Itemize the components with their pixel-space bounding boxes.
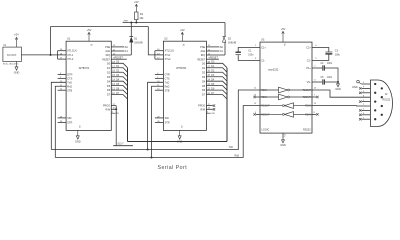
pin U3 T2OUT stub [312, 96, 316, 98]
junction U2 RxD on line [151, 157, 153, 159]
svg-text:TxD: TxD [229, 146, 234, 149]
ground at U1 [75, 130, 81, 143]
pin U3 GND bottom [282, 133, 284, 138]
svg-text:+RESET: +RESET [113, 56, 123, 59]
svg-text:20: 20 [78, 125, 80, 128]
svg-text:8: 8 [314, 112, 316, 114]
svg-text:SID: SID [67, 117, 71, 120]
wire U1 RW pin [111, 108, 116, 110]
pin labels U2 left group [157, 73, 170, 92]
pin labels U3 T2IN T2OUT [254, 95, 316, 100]
pin labels U2 XTAL group [157, 49, 174, 61]
svg-text:IRQ: IRQ [201, 54, 206, 57]
wire U2 XTAL pin tie [154, 51, 156, 59]
capacitor C2 [321, 63, 333, 71]
pin labels U3 R1OUT R1IN [254, 103, 317, 108]
pin U2 XTL1 [155, 54, 164, 56]
svg-text:Serial Port: Serial Port [158, 165, 188, 171]
capacitor C1 [236, 50, 255, 57]
svg-text:RxD: RxD [67, 85, 72, 88]
svg-text:4: 4 [315, 45, 317, 47]
pin U2 STB stub [155, 89, 164, 91]
pin U2 D7 wire and bus ripper [206, 95, 227, 99]
svg-text:U2: U2 [164, 37, 168, 41]
op-amp style buffer receiver R2OUT inside U3 [260, 112, 312, 118]
svg-text:SJ2-7: SJ2-7 [118, 143, 125, 145]
svg-text:J2: J2 [385, 93, 388, 96]
svg-text:P5: P5 [116, 113, 119, 115]
svg-text:D1: D1 [134, 38, 138, 41]
power +5V at oscillator X1 [14, 33, 19, 48]
pin U1 D4 wire and bus ripper [111, 81, 127, 85]
junction R1 reset rail [135, 22, 137, 24]
svg-text:D5: D5 [202, 85, 206, 88]
pin labels U3 C2+ C2- [306, 45, 317, 63]
bus horizontal data bus [128, 141, 228, 143]
svg-text:D7: D7 [202, 94, 206, 97]
svg-text:D4: D4 [202, 80, 206, 83]
wire U1 XTAL pin tie [57, 51, 59, 59]
svg-text:T2OUT: T2OUT [303, 96, 312, 99]
svg-text:20: 20 [180, 125, 182, 128]
svg-text:+5V: +5V [87, 28, 92, 32]
svg-text:D6: D6 [107, 89, 111, 92]
pin labels U1 SID STR [60, 116, 73, 124]
ground at oscillator X1 [14, 61, 20, 74]
no-connect J2 pin 3 [359, 100, 361, 102]
svg-text:R1IN: R1IN [305, 105, 311, 108]
IC U2 W78C51 body [163, 37, 206, 131]
svg-text:1: 1 [255, 45, 257, 47]
svg-text:15: 15 [283, 134, 285, 137]
pin labels U1 XTAL group [60, 49, 77, 61]
pin U2 D2 wire and bus ripper [206, 72, 227, 76]
svg-text:U1: U1 [67, 37, 71, 41]
ground at U2 [177, 130, 183, 143]
svg-text:C1+: C1+ [261, 47, 266, 50]
capacitor C3 [325, 50, 340, 57]
pin U2 DTR stub [155, 73, 164, 75]
pin U2 D3 wire and bus ripper [206, 77, 227, 81]
svg-text:D0: D0 [107, 62, 111, 65]
svg-text:+RST: +RST [123, 20, 129, 22]
svg-text:VS-: VS- [307, 81, 311, 84]
svg-text:5: 5 [315, 58, 317, 60]
svg-text:8.0 OUT: 8.0 OUT [7, 54, 17, 57]
IC U1 W78C51 body [66, 37, 111, 131]
svg-text:A0: A0 [220, 46, 224, 49]
svg-text:TxD: TxD [165, 81, 170, 84]
pin labels U1 PSE ALE IRQ RESET [102, 46, 110, 61]
svg-text:SID: SID [165, 117, 169, 120]
svg-text:PSE: PSE [200, 46, 205, 49]
svg-text:D6: D6 [202, 89, 206, 92]
svg-text:D0: D0 [202, 62, 206, 65]
svg-text:C3: C3 [335, 50, 339, 53]
svg-text:CTS: CTS [67, 77, 72, 80]
ground at J2 pin 5 [352, 80, 362, 89]
svg-text:RESET: RESET [198, 59, 206, 61]
pin U3 VS+ wire [312, 67, 322, 69]
svg-text:DTR: DTR [165, 74, 170, 77]
svg-text:12: 12 [254, 103, 257, 105]
pin U3 C1- wire to C1 [238, 55, 260, 60]
svg-text:RxD: RxD [235, 154, 240, 157]
svg-text:D2: D2 [107, 71, 111, 74]
svg-text:7: 7 [314, 95, 316, 97]
pin labels U3 C1+ C1- [255, 45, 266, 63]
op-amp style buffer driver T2IN inside U3 [260, 94, 312, 100]
svg-text:A0: A0 [125, 46, 129, 49]
wire U2 IRQ pin to diode node [206, 54, 225, 56]
wire D2 bottom to U2 IRQ wire [224, 42, 226, 55]
pin U1 STR stub [58, 122, 67, 124]
wire U2 TxD tap [148, 82, 164, 149]
pin J2 pin 4 stub [362, 92, 371, 94]
junction U1 PROG RW [115, 108, 117, 110]
svg-text:XTL1: XTL1 [165, 54, 172, 57]
pin U2 CTS stub [155, 77, 164, 79]
wire net stub SJ2-7 [113, 145, 133, 147]
pin U3 C2- wire to C3 [312, 54, 329, 60]
wire U1 PSE to net A0 [111, 46, 124, 48]
svg-text:+5V: +5V [134, 0, 139, 4]
pin U1 aux P5 [111, 111, 119, 115]
svg-text:C2-: C2- [307, 60, 311, 63]
pin U2 D4 wire and bus ripper [206, 81, 227, 85]
pin U1 XTL2 [58, 58, 67, 60]
svg-text:T2IN: T2IN [261, 96, 267, 99]
svg-text:14: 14 [314, 88, 317, 90]
pin U1 DTR stub [58, 73, 67, 75]
wire C2 to ground node [325, 68, 338, 82]
junction U2 TxD on line [147, 149, 149, 151]
junction D1 reset rail [130, 22, 132, 24]
pin U2 aux ICE [206, 111, 215, 115]
svg-text:GND: GND [14, 71, 20, 74]
svg-text:100n: 100n [327, 77, 333, 79]
svg-text:+5V: +5V [14, 33, 19, 37]
svg-text:R/W: R/W [201, 108, 206, 111]
no-connect U2 RW pin [213, 108, 215, 110]
svg-text:PSE: PSE [105, 46, 110, 49]
svg-text:+RESET: +RESET [208, 56, 218, 59]
wire U1 IRQ pin to diode node [111, 54, 131, 56]
svg-text:XTLCLK: XTLCLK [67, 50, 77, 53]
pin U1 D0 wire and bus ripper [111, 63, 127, 67]
wire U2 ALE to net A1 [206, 50, 219, 52]
wire U2 RxD tap [152, 86, 164, 157]
svg-text:D2: D2 [228, 38, 232, 41]
svg-text:T1IN: T1IN [261, 89, 267, 92]
svg-text:11: 11 [254, 88, 257, 90]
svg-text:XTL2: XTL2 [67, 58, 74, 61]
svg-text:CTS: CTS [165, 77, 170, 80]
pin U1 D3 wire and bus ripper [111, 77, 127, 81]
svg-text:D3: D3 [202, 76, 206, 79]
oscillator X1 body [3, 45, 22, 62]
pin U1 D1 wire and bus ripper [111, 68, 127, 72]
pin U2 D0 wire and bus ripper [206, 63, 227, 67]
pin labels U3 R2OUT R2IN [255, 112, 316, 117]
svg-text:PROG: PROG [198, 105, 205, 108]
svg-text:R2OUT: R2OUT [261, 114, 270, 117]
svg-text:GND: GND [280, 144, 286, 147]
pin U1 XTL1 [58, 54, 67, 56]
svg-text:D5: D5 [107, 85, 111, 88]
svg-text:U3: U3 [261, 37, 265, 41]
svg-text:R1: R1 [140, 13, 144, 16]
diode D2 1N914B [223, 37, 237, 45]
wire U1 RESET pin [111, 58, 127, 60]
power +5V at U2 [180, 28, 185, 41]
wire clock riser [50, 27, 52, 55]
svg-text:XTL2: XTL2 [165, 58, 172, 61]
svg-text:STR: STR [67, 122, 72, 125]
pin labels U3 T1IN T1OUT [254, 88, 317, 93]
pin J2 pin 9 stub [362, 87, 371, 89]
svg-text:XTL1: XTL1 [67, 54, 74, 57]
svg-text:D1: D1 [107, 67, 111, 70]
svg-text:GND: GND [335, 88, 341, 91]
power +5V at R1 [134, 0, 139, 12]
svg-text:D1: D1 [202, 67, 206, 70]
svg-text:100n: 100n [248, 55, 254, 57]
capacitor C5 [321, 77, 333, 85]
svg-text:STB: STB [67, 89, 72, 92]
wire U1 PROG pin [111, 105, 116, 107]
wire RxD line to MAX232 R1OUT [55, 106, 260, 158]
svg-text:D3: D3 [107, 76, 111, 79]
svg-text:10k: 10k [139, 17, 144, 20]
wire U1 ALE to net A1 [111, 50, 124, 52]
svg-text:16: 16 [283, 43, 285, 46]
wire D1 bottom to U1 IRQ wire [130, 42, 132, 55]
wire clock junction to U1 XTAL tie [51, 54, 58, 56]
bus U1 data bus vertical [127, 68, 129, 142]
wire U1 TxD down [51, 82, 66, 149]
wire R1 bottom to reset rail [135, 20, 137, 23]
svg-text:ALE: ALE [105, 50, 110, 53]
pin U1 STB stub [58, 89, 67, 91]
pin U2 XTL2 [155, 58, 164, 60]
pin U3 VS- wire [312, 81, 322, 83]
pin U1 SID stub [58, 117, 67, 119]
pin labels U1 PROG RW [103, 104, 116, 111]
connector J2 DB9 shell [370, 80, 392, 126]
ground at U3 [280, 138, 286, 147]
pin labels U2 SID STR [157, 116, 170, 124]
svg-text:LOGIC: LOGIC [262, 129, 270, 132]
svg-text:D2: D2 [202, 71, 206, 74]
pin U3 C1+ wire to C1 [238, 48, 260, 52]
pin U3 R2OUT stub [256, 113, 260, 115]
svg-text:C2: C2 [321, 63, 325, 65]
pin labels U3 VS+ VS- [306, 65, 316, 84]
pin labels U2 PROG RW [198, 104, 211, 111]
svg-text:3: 3 [255, 58, 257, 60]
wire clock rail to U2 [51, 26, 149, 28]
svg-text:T1OUT: T1OUT [303, 89, 312, 92]
wire TxD line to MAX232 T1IN [51, 90, 260, 150]
svg-text:A1: A1 [220, 50, 224, 53]
connector J2 labels [383, 93, 391, 101]
svg-text:W78C51: W78C51 [176, 66, 187, 70]
pin U1 XTLCLK [58, 50, 67, 52]
svg-text:C2+: C2+ [306, 47, 311, 50]
wire D1 top [130, 23, 132, 37]
svg-text:STB: STB [165, 89, 170, 92]
op-amp style buffer receiver R1OUT inside U3 [260, 103, 312, 109]
junction capacitor ground node [337, 81, 339, 83]
pin U1 D6 wire and bus ripper [111, 90, 127, 94]
svg-text:RxD: RxD [165, 85, 170, 88]
svg-text:C5: C5 [321, 77, 325, 79]
svg-text:RS232: RS232 [383, 98, 391, 101]
svg-text:40: 40 [183, 45, 186, 47]
wire D2 top [224, 23, 226, 37]
wire U2 PSE to net A0 [206, 46, 219, 48]
no-connect J2 pin 1 [359, 118, 361, 120]
pin J2 pin 2 stub [362, 109, 371, 111]
pin numbers U2 13 11 10 [208, 45, 211, 55]
svg-text:C1: C1 [248, 50, 252, 53]
pin labels U1 left group [60, 73, 73, 92]
wire U1 PROG RW drop [115, 106, 117, 146]
no-connect U3 T2OUT [316, 96, 318, 98]
power +5V at U3 [281, 27, 286, 42]
pin U1 D5 wire and bus ripper [111, 86, 127, 90]
svg-text:1N914B: 1N914B [134, 43, 143, 45]
svg-text:R1OUT: R1OUT [261, 105, 270, 108]
svg-text:1N914B: 1N914B [228, 43, 237, 45]
pin U2 D1 wire and bus ripper [206, 68, 227, 72]
junction clock node [50, 54, 52, 56]
wire oscillator OUT to clock junction [21, 54, 50, 56]
svg-text:DTR: DTR [67, 74, 72, 77]
svg-text:A1: A1 [125, 50, 129, 53]
pin U2 D6 wire and bus ripper [206, 90, 227, 94]
svg-text:R/W: R/W [105, 108, 110, 111]
IC U3 MAX3232 body [260, 37, 312, 133]
svg-text:2: 2 [314, 65, 316, 67]
svg-text:+5V: +5V [281, 27, 286, 31]
pin numbers U1 13 11 10 [113, 45, 116, 55]
pin U2 XTLCLK [155, 50, 164, 52]
wire U2 PROG stub [206, 105, 212, 107]
no-connect U3 R2OUT [253, 113, 255, 115]
no-connect J2 pin 2 [359, 109, 361, 111]
svg-text:ICE: ICE [211, 113, 215, 115]
wire U2 RW stub [206, 108, 212, 110]
no-connect J2 pin 6 [359, 114, 361, 116]
svg-text:GND: GND [75, 140, 81, 143]
pin U2 D5 wire and bus ripper [206, 86, 227, 90]
pin U1 D2 wire and bus ripper [111, 72, 127, 76]
wire U1 RxD down [55, 86, 66, 157]
svg-text:GND: GND [352, 86, 358, 89]
no-connect U3 R2IN [316, 113, 318, 115]
ground at C2 C5 [335, 82, 341, 91]
bus U2 data bus vertical [226, 68, 228, 142]
no-connect U2 PROG pin [213, 104, 215, 106]
pin J2 pin 6 stub [362, 114, 371, 116]
no-connect J2 pin 4 [359, 92, 361, 94]
pin U2 SID stub [155, 117, 164, 119]
pin labels U2 PSE ALE IRQ RESET [198, 46, 206, 61]
pin U3 R2IN stub [312, 113, 316, 115]
svg-text:100n: 100n [327, 63, 333, 65]
svg-text:40: 40 [90, 45, 93, 47]
no-connect J2 pin 9 [359, 87, 361, 89]
svg-text:C1-: C1- [261, 60, 265, 63]
svg-text:IRQ: IRQ [106, 54, 111, 57]
svg-text:RS232: RS232 [303, 129, 311, 132]
resistor R1 [135, 12, 145, 20]
pin U1 CTS stub [58, 77, 67, 79]
svg-text:XTLCLK: XTLCLK [165, 50, 175, 53]
pin J2 pin 5 stub [362, 83, 371, 85]
svg-text:TxD: TxD [67, 81, 72, 84]
wire U3 T1OUT to DB9 [312, 90, 370, 97]
svg-text:ALE: ALE [200, 50, 205, 53]
pin J2 pin 1 stub [362, 118, 371, 120]
svg-text:RESET: RESET [102, 59, 110, 61]
svg-text:D7: D7 [107, 94, 111, 97]
power +5V at U1 [87, 28, 92, 41]
svg-text:STR: STR [165, 122, 170, 125]
svg-text:6: 6 [314, 79, 316, 81]
svg-text:X1: X1 [3, 45, 7, 47]
svg-text:max3232: max3232 [268, 69, 279, 72]
svg-text:W78C51: W78C51 [79, 66, 90, 70]
svg-text:D4: D4 [107, 80, 111, 83]
pin U3 C2+ wire to C3 [312, 48, 329, 52]
svg-text:100n: 100n [335, 55, 341, 57]
op-amp style buffer driver T1IN inside U3 [260, 87, 312, 93]
wire reset rail [123, 22, 225, 24]
wire clock drop into U2 XTAL pins [148, 27, 155, 55]
pin U3 T2IN stub [256, 96, 260, 98]
svg-text:PROG: PROG [103, 105, 110, 108]
svg-text:13: 13 [314, 103, 317, 105]
svg-text:VS+: VS+ [306, 67, 311, 70]
pin U2 STR stub [155, 122, 164, 124]
wire U3 R1IN to DB9 [312, 105, 370, 107]
pin J2 pin 3 stub [362, 101, 371, 103]
diode D1 1N914B [129, 37, 143, 45]
wire C5 to ground node [325, 81, 338, 83]
wire U2 RESET pin [206, 58, 219, 60]
pin U1 D7 wire and bus ripper [111, 95, 127, 99]
svg-text:R2IN: R2IN [305, 114, 311, 117]
svg-text:+5V: +5V [180, 28, 185, 32]
no-connect U3 T2IN [253, 96, 255, 98]
